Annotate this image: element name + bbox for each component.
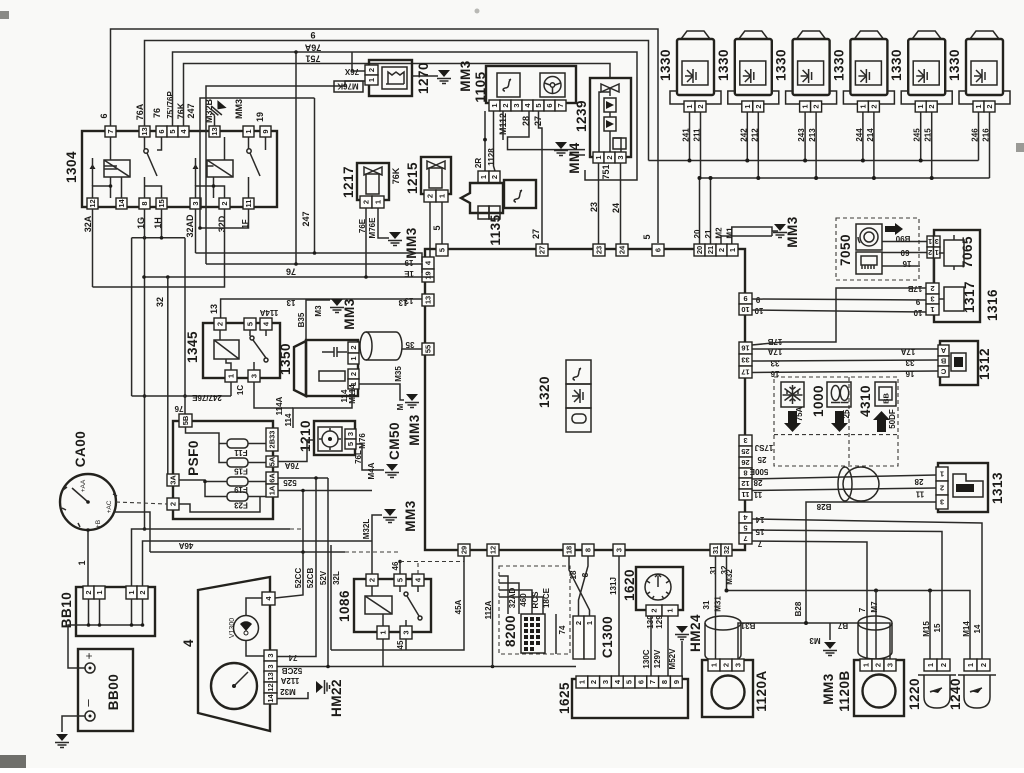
fuse F23 [227,492,248,501]
1320 left pin 13 [422,294,434,306]
svg-text:C1300: C1300 [600,616,615,658]
injector 1330 #6 [959,31,1010,112]
svg-text:MM3: MM3 [403,500,418,532]
svg-text:114: 114 [340,389,349,402]
svg-text:1313: 1313 [990,472,1005,504]
wire BB10 to battery + [68,625,85,668]
1320 top pins 20,21,2,1 [694,244,705,256]
svg-text:13: 13 [210,127,219,135]
svg-text:1: 1 [367,78,376,82]
svg-text:8: 8 [581,572,590,577]
svg-text:32: 32 [722,546,731,554]
svg-text:129V: 129V [653,649,662,668]
relay unit 1304 [82,131,277,207]
svg-text:MM3: MM3 [407,414,422,446]
1120A pins 1,2,3 [708,659,720,671]
svg-text:–: – [80,699,95,707]
svg-text:52CB: 52CB [306,568,315,589]
svg-text:24: 24 [611,203,621,213]
svg-text:8: 8 [743,469,747,478]
svg-text:2: 2 [930,284,934,293]
1086 pins 2,5,4 [366,574,378,586]
svg-text:12: 12 [266,683,275,691]
wire 27 down to ECU [539,111,543,245]
1320 right pins 16,33,17 [739,342,752,354]
svg-text:76K: 76K [391,167,401,184]
wire 76X stub to 1270 [352,52,365,71]
BB10 internal bus [76,599,143,625]
svg-text:1: 1 [728,248,737,252]
svg-text:13: 13 [424,296,433,304]
bus risers to ECU pins 20,21 [700,178,711,245]
wire 32A pin12 down [92,209,94,287]
svg-text:76: 76 [286,267,296,277]
svg-text:18: 18 [565,546,574,554]
wire M112 stub [502,111,504,140]
1320 right pins 4,5,7 [739,512,752,523]
wire 52CB / 74 [277,478,316,657]
PSF0 pin 2 [167,498,179,510]
diode box 1239 [590,78,631,157]
sensor module 7050 (dashed) [836,218,919,280]
svg-text:76: 76 [152,108,162,118]
wire 14 to 1240 [752,519,982,659]
1239 inner wires [599,92,621,152]
1304 pin 3 [190,198,201,209]
svg-text:+B: +B [95,520,102,528]
cluster pins 13,12,14 [264,671,277,682]
1345 contact [250,336,254,340]
wire 28 to 1239 frame [508,111,586,150]
svg-text:76K: 76K [176,102,186,119]
svg-text:1320: 1320 [537,376,552,408]
svg-text:1330: 1330 [716,49,731,81]
connector strip 1625 [572,679,688,718]
svg-text:B7: B7 [837,621,848,630]
riser 247 b [314,98,316,253]
1304 pin 15 [156,198,167,209]
1320 bottom pins 31,32 [710,544,721,556]
svg-text:1330: 1330 [889,49,904,81]
svg-text:12: 12 [489,546,498,554]
long vertical pin8 down to y529 [144,209,146,529]
svg-text:2: 2 [368,578,377,582]
svg-text:17A: 17A [900,347,915,356]
battery ground [62,716,85,732]
svg-text:74: 74 [288,653,297,662]
1086 pins 1,3 [377,626,389,639]
svg-text:M76E: M76E [368,217,377,239]
svg-text:MM3: MM3 [404,227,419,259]
wire 23 [598,163,600,246]
svg-text:5: 5 [642,234,652,239]
svg-text:HM24: HM24 [688,614,703,652]
svg-text:114A: 114A [259,308,278,317]
cluster internal wires [246,598,264,656]
1320 top pin 24 [616,244,628,256]
1320 icon column [566,360,591,384]
svg-text:2: 2 [979,663,988,667]
svg-text:15: 15 [755,527,764,536]
svg-text:8: 8 [584,548,593,552]
svg-text:3: 3 [512,103,521,107]
injector bus 1 [649,160,979,162]
wire 16 [752,371,938,373]
1320 bottom pin 29 [458,544,470,556]
wire 17B [752,288,926,345]
1304 pin 11 [243,198,254,209]
diode a [604,98,616,112]
1350 connector upper 2,1 [348,342,359,353]
connector 1312 [940,341,978,385]
svg-text:9: 9 [915,297,920,306]
option units 1000/4310 (dashed) [774,377,898,466]
svg-text:4310: 4310 [858,385,873,417]
svg-text:5: 5 [743,524,747,533]
svg-text:33: 33 [905,358,914,367]
svg-text:130C: 130C [642,649,651,668]
svg-text:1215: 1215 [405,162,420,194]
svg-text:1: 1 [666,608,675,612]
svg-text:1: 1 [227,374,236,378]
svg-text:1: 1 [95,590,104,594]
diode marks inside 1304 [90,164,199,169]
ignition coil cylinder 1120B [858,623,892,659]
spark module 1120B [854,660,904,716]
svg-text:C: C [940,367,946,376]
svg-text:1330: 1330 [831,49,846,81]
svg-text:31: 31 [702,600,711,609]
svg-text:11: 11 [915,490,924,499]
svg-text:2: 2 [349,345,358,349]
wires M2 M1 to ground [721,227,778,245]
fuse F15 [227,458,248,467]
1304 pin 6 [156,126,167,137]
bus y253 to pin 4 [196,253,423,262]
svg-text:8200: 8200 [503,615,518,647]
twin diode icon [601,84,619,96]
svg-text:11: 11 [742,490,750,499]
tachometer [211,663,257,709]
svg-text:7: 7 [743,534,747,543]
wire 1A line [278,490,372,492]
ground MM3 right of 1270 [412,75,438,77]
wire M76E to ground MM3 [378,208,389,238]
svg-text:3: 3 [616,155,625,159]
injector 1330 #4 [843,31,894,112]
8200 feed wires [499,576,543,614]
bus y237 pins 8,15 [132,209,185,238]
svg-text:3: 3 [940,498,944,507]
1304 pin 2 [219,198,230,209]
svg-text:74: 74 [558,625,567,634]
wire M31 [715,556,717,660]
svg-text:V1300: V1300 [229,618,236,638]
1317 connector cells [926,283,939,294]
svg-text:21: 21 [704,229,713,238]
svg-text:19: 19 [424,271,433,279]
1086 contact [404,592,408,596]
1320 top pin 5 [436,244,448,256]
svg-text:16: 16 [741,344,749,353]
wire 112A riser to pin 12 [492,556,494,667]
svg-text:5: 5 [432,225,442,230]
svg-text:CA00: CA00 [73,431,88,468]
PSF0 pins 6A,1A [266,472,278,484]
svg-text:3: 3 [743,436,747,445]
svg-text:2: 2 [362,200,371,204]
wire 10 [752,310,926,312]
svg-text:129: 129 [655,615,664,629]
svg-text:2: 2 [220,201,229,205]
svg-text:1: 1 [710,663,719,667]
wire 114 down to PSF0 [293,389,352,428]
1345 coil [214,340,239,359]
svg-text:5B: 5B [181,415,190,425]
svg-text:MM3: MM3 [458,60,473,92]
svg-text:751: 751 [305,54,320,64]
horn 1135 body [461,183,503,213]
svg-text:HM22: HM22 [329,679,344,717]
svg-text:76A: 76A [304,43,321,53]
1345 pins 1,3 [225,370,237,382]
svg-text:M32L: M32L [362,519,371,540]
svg-text:7: 7 [858,607,867,612]
svg-text:1239: 1239 [574,100,589,132]
spark module 1120A [702,660,753,717]
svg-text:+AC: +AC [106,500,113,513]
svg-text:2: 2 [605,155,614,159]
1313 sensor icon [953,474,983,497]
PSF0 internal wiring [179,427,266,512]
1320 bottom pin 8 [582,544,594,556]
1620 pins 2,1 [646,605,662,616]
ignition switch CA00 [60,474,116,530]
svg-text:M52V: M52V [668,648,677,670]
svg-text:MM3: MM3 [342,298,357,330]
wire 131J [618,556,620,677]
svg-text:F15: F15 [234,467,248,476]
wire 32AD pin3 down [195,209,197,253]
svg-text:1: 1 [585,621,594,625]
svg-text:M: M [396,403,405,410]
ground MM4 [569,154,585,156]
wire pin1 stub [382,639,384,667]
capacitor icon [322,347,347,357]
1304 pin 5 [167,126,178,137]
1320 bottom pin 3 [613,544,625,556]
wire 7 to 1120B [752,541,867,659]
wire B28 from 1313 pin3 [806,502,936,623]
svg-text:4: 4 [181,639,196,647]
svg-text:3: 3 [250,374,259,378]
svg-text:2: 2 [574,621,583,625]
svg-text:247: 247 [301,211,311,226]
svg-text:2: 2 [589,680,598,684]
svg-text:24: 24 [618,245,627,254]
svg-text:76: 76 [174,404,183,413]
svg-text:1: 1 [438,194,447,198]
wire 24 [620,163,622,246]
svg-text:1330: 1330 [658,49,673,81]
svg-text:2: 2 [138,590,147,594]
svg-text:15: 15 [157,199,166,207]
1320 left pin 55 [422,343,434,355]
svg-text:45A: 45A [454,599,463,614]
wire B31/B7 line [738,623,890,659]
svg-text:3: 3 [402,630,411,634]
svg-text:M32: M32 [725,569,734,585]
instrument cluster 4 [198,577,270,731]
wire 45/45A [331,556,464,650]
svg-text:500E: 500E [749,467,768,476]
svg-text:CM50: CM50 [387,422,402,460]
svg-text:247/76E: 247/76E [191,393,221,402]
1304 internal wires [93,137,266,198]
svg-text:32D: 32D [217,215,227,232]
junction block BB10 [76,587,155,636]
svg-text:M14: M14 [962,621,971,637]
svg-text:31: 31 [711,546,720,554]
svg-text:32AD: 32AD [185,214,195,238]
svg-text:460: 460 [519,593,528,607]
svg-text:114A: 114A [275,396,284,415]
wire 35 to pin 55 [402,348,422,350]
svg-text:1220: 1220 [907,678,922,710]
ground HM22 [277,692,308,699]
fan icon [427,161,445,169]
1210 pins 3,5 [345,429,356,439]
svg-text:6: 6 [545,103,554,107]
svg-text:3: 3 [886,663,895,667]
svg-text:MM4: MM4 [567,142,582,174]
svg-text:5A: 5A [268,456,277,466]
1320 right pins 9,10 [739,293,752,304]
svg-text:20: 20 [693,229,702,238]
svg-text:14: 14 [117,199,126,208]
svg-text:131J: 131J [609,577,618,595]
svg-text:2: 2 [928,248,932,257]
svg-text:1625: 1625 [557,682,572,714]
svg-text:1: 1 [490,103,499,107]
connector C1300 [573,616,584,659]
wire 33 [752,360,938,361]
svg-text:13: 13 [266,672,275,680]
fan icon [364,167,382,175]
svg-text:M76K: M76K [337,82,359,91]
7065 inner element [944,240,964,266]
svg-text:28: 28 [914,477,923,486]
svg-text:1128: 1128 [487,148,496,166]
svg-text:3: 3 [615,548,624,552]
wire 76 vertical to PSF0 5B [184,238,186,414]
1350 body [294,341,306,396]
injector 1330 #2 [728,31,779,112]
module 7065 / 1317 outer box 1316 [934,230,980,322]
svg-text:1: 1 [374,200,383,204]
wire +AC to 46A line [114,512,150,552]
cluster pins 3,3 [264,650,277,661]
svg-text:26: 26 [741,458,749,467]
svg-text:B28: B28 [794,601,803,616]
1304 pin 9 [260,126,271,137]
injector 1330 #3 [786,31,837,112]
svg-text:35: 35 [405,340,414,349]
svg-text:3: 3 [346,432,355,436]
svg-text:3: 3 [266,653,275,657]
svg-text:32: 32 [155,297,165,307]
1320 top pin 27 [536,244,548,256]
wire E : to 1270 connector [206,81,365,264]
fuse F11 [227,439,248,448]
svg-text:23: 23 [589,202,599,212]
wire M32L to ground MM3 [372,515,382,574]
svg-text:14: 14 [973,624,982,633]
svg-text:2: 2 [650,608,659,612]
svg-text:32L: 32L [332,571,341,585]
svg-text:3: 3 [930,295,934,304]
svg-text:1350: 1350 [278,343,293,375]
svg-text:2: 2 [349,372,358,376]
wire 17A [752,348,938,350]
injector 1330 #5 [901,31,952,112]
svg-text:1240: 1240 [948,678,963,710]
svg-text:1120A: 1120A [754,670,769,712]
svg-text:BB10: BB10 [59,592,74,629]
svg-text:29: 29 [460,546,469,554]
svg-text:+: + [82,652,96,659]
svg-text:1C: 1C [236,385,245,395]
display icon [875,382,896,406]
svg-text:5: 5 [396,578,405,582]
svg-text:BB: BB [882,393,891,404]
wires 18,8 crossing to C1300 [569,556,590,616]
svg-text:M3: M3 [314,305,323,317]
svg-text:1270: 1270 [416,62,431,94]
1345 pins 2,5,4 [214,318,226,330]
svg-text:33: 33 [741,356,749,365]
svg-text:1: 1 [930,305,934,314]
svg-text:F23: F23 [234,501,248,510]
svg-text:1120B: 1120B [837,670,852,712]
svg-text:1135: 1135 [488,214,503,245]
svg-text:PSF0: PSF0 [186,440,201,476]
svg-text:17SJ: 17SJ [755,443,774,452]
svg-text:17: 17 [741,368,749,377]
lamp 1220 [924,659,937,671]
wire 247/76E line [132,395,231,397]
svg-text:M32: M32 [280,687,296,696]
wire M35 to ground [359,384,404,400]
wire 751 top : 1304 pin4 to 1239 [184,64,611,127]
ECU box 1320 [425,249,745,550]
svg-text:M2: M2 [715,227,724,239]
svg-text:1217: 1217 [341,166,356,198]
svg-text:8: 8 [660,680,669,684]
svg-text:76A: 76A [284,461,299,470]
ground MM3 near 1345 [330,299,344,313]
bus y277 76 [144,276,434,278]
1215 pins 2,1 [424,190,436,202]
svg-text:19: 19 [404,258,413,267]
wire 32 vertical [168,277,173,480]
svg-text:9: 9 [261,129,270,133]
svg-text:114: 114 [284,413,293,426]
wire 76A from 5A [278,440,314,462]
svg-text:45: 45 [396,640,405,649]
svg-text:BB00: BB00 [106,674,121,711]
svg-text:76A: 76A [135,103,145,120]
